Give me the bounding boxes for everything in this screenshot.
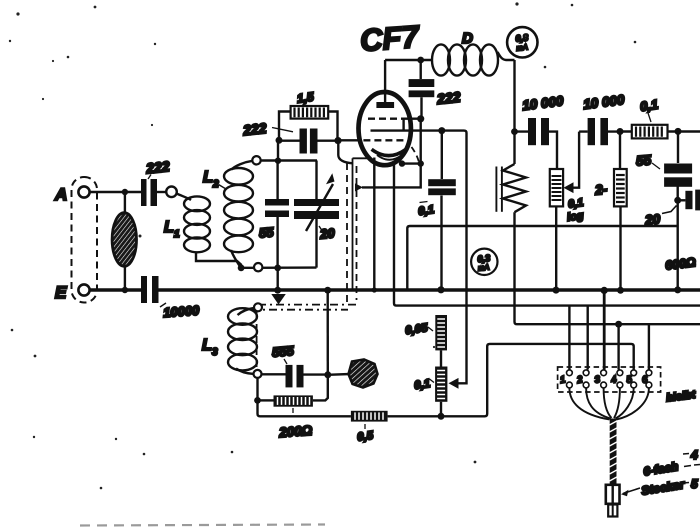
capacitor 222 (grid) (241, 120, 338, 154)
wire coil D to supply drop (498, 52, 515, 60)
svg-text:55: 55 (635, 152, 652, 168)
node supply / 10000 tee (511, 128, 518, 135)
wire g2 feed (442, 131, 467, 384)
resistor 200 ohm (258, 375, 328, 440)
node pin3 at bus (601, 287, 608, 294)
wire E line / main bus (90, 288, 700, 291)
svg-text:L: L (202, 337, 212, 354)
wire riser tank top to grid node (277, 140, 279, 160)
svg-text:55: 55 (258, 224, 274, 240)
node tank bottom (274, 265, 281, 272)
bottom edge smudge (80, 525, 325, 526)
node cathode at bus (372, 287, 377, 292)
connector pins (559, 370, 652, 388)
node L1/L2 bottom (238, 265, 245, 272)
node on E line (122, 287, 128, 293)
node riser at bus (324, 287, 331, 294)
coil L2 (203, 161, 253, 268)
node at bottom bus (438, 413, 445, 420)
wire tank top (261, 159, 317, 161)
terminal E (55, 283, 90, 302)
terminal circle L2 bottom (254, 263, 262, 271)
svg-text:mA: mA (478, 262, 490, 272)
label 6-fach Stecker with arrow (621, 459, 700, 498)
svg-text:0,5: 0,5 (357, 430, 375, 444)
tube g2 line (solid) (371, 129, 442, 131)
svg-text:E: E (55, 283, 67, 302)
tube grid tie (404, 119, 419, 131)
wire choke down to heater bus corner (515, 212, 700, 324)
wire pin3 riser (603, 290, 606, 370)
ground triangle (shield to bus) (271, 294, 286, 305)
arrester (hatched oval between A and E) (112, 192, 136, 290)
capacitor 0,1 (screen bypass) (418, 131, 456, 290)
terminal circle L1 top (166, 187, 177, 198)
tube cathode (372, 149, 406, 155)
label 600 ohm (664, 255, 696, 273)
dashed terminal enclosure (72, 177, 98, 303)
cable (hatched) (610, 419, 617, 486)
wire L3 bottom to 555 (262, 373, 286, 375)
capacitor 555 (271, 343, 327, 387)
wire screen drop to cathode and shield box edge (362, 119, 421, 188)
svg-text:10000: 10000 (163, 303, 201, 321)
terminal circle L3 bottom (254, 370, 262, 378)
node cap 20 junction (674, 197, 681, 204)
node screen cap (417, 115, 424, 122)
shield dash vertical (L3 can) (256, 312, 258, 370)
wire bottom bus right of 0,5 (388, 344, 634, 416)
node 555 right (324, 371, 331, 378)
variable capacitor 20 (tank) (294, 161, 339, 268)
svg-text:mA: mA (516, 42, 528, 52)
svg-text:0,1: 0,1 (414, 378, 432, 392)
wire between 0,05 and 0,1 (440, 350, 442, 366)
wire grid to tube (338, 139, 359, 141)
shield box arrow (355, 183, 363, 191)
node tank top (junction to grid node riser) (275, 158, 281, 164)
svg-text:222: 222 (144, 158, 170, 176)
capacitor 55 (right) (635, 131, 692, 290)
node resistor 2 at bus (617, 287, 624, 294)
svg-text:0,1: 0,1 (567, 197, 584, 211)
svg-text:2: 2 (212, 179, 219, 190)
capacitor 10000 (E line) (141, 276, 200, 320)
wire pin1 riser (568, 306, 570, 370)
wire heater lead / heater bus (394, 162, 700, 306)
node on A line (122, 189, 128, 195)
wire tank bottom (241, 266, 317, 269)
tube anode plate (376, 60, 394, 108)
node g2 cap tie (438, 127, 445, 134)
resistor 0,1 (top right) (620, 97, 700, 139)
tube control grid (dashed) (363, 139, 404, 141)
node right cap at bus (674, 286, 681, 293)
shield dash vertical pair (left of tube) (346, 163, 348, 302)
wire anode supply drop (513, 60, 515, 164)
node grid (334, 137, 341, 144)
wire grid node to shield lead (338, 141, 352, 164)
shield box top edge (353, 158, 368, 163)
wire anode top (385, 59, 433, 61)
resistor 1,5 (279, 90, 338, 141)
node anode cap tie (417, 57, 424, 64)
meter 0,3 mA (471, 249, 497, 275)
node bus at tank riser (274, 287, 281, 294)
connector block (dashed) (558, 367, 661, 392)
tube CF7 envelope U1 (359, 19, 422, 165)
capacitor 55 (tank) (258, 161, 289, 268)
svg-text:1: 1 (174, 229, 180, 240)
svg-text:5: 5 (691, 477, 698, 491)
choke with core (zigzag) (496, 164, 526, 212)
tube heater (377, 155, 402, 160)
wire pin2 riser (587, 306, 589, 370)
wire cathode tie (402, 162, 421, 164)
node 200ohm left (254, 397, 261, 404)
label fragment 5 (683, 477, 698, 491)
plug 6-fach Stecker (606, 485, 620, 517)
svg-text:2-: 2- (593, 182, 608, 198)
wire pin6 riser (648, 324, 650, 369)
svg-text:555: 555 (271, 343, 295, 360)
shield dashes at tube lower right (412, 147, 420, 165)
svg-text:222: 222 (241, 120, 267, 138)
resistor 0,5 (351, 411, 388, 444)
capacitor 10000 (first) (515, 93, 565, 169)
svg-text:log: log (566, 210, 584, 224)
svg-text:4: 4 (690, 448, 698, 462)
arrow into 0,1 resistor (449, 378, 459, 389)
svg-text:CF7: CF7 (359, 19, 422, 58)
capacitor 20 (right trimmer) (644, 190, 700, 228)
detector blob (hatched) (328, 360, 378, 388)
svg-text:L: L (203, 169, 213, 186)
wire A line (90, 191, 141, 193)
svg-text:1,5: 1,5 (296, 90, 315, 106)
wire cathode lead to bus (373, 158, 375, 291)
node 0,1 right (675, 128, 682, 135)
meter 0,8 mA (507, 27, 537, 57)
node pot at bus (553, 287, 560, 294)
wire shield ground drop (352, 163, 354, 289)
terminal circle L3 top (254, 303, 262, 311)
resistor 0,05 (405, 315, 447, 350)
terminal A (54, 185, 90, 204)
resistor 0,1 (lower) (414, 367, 448, 402)
svg-text:L: L (164, 219, 174, 236)
shield dash-dot bottom pair (258, 304, 357, 306)
node pin4 at heater line (615, 321, 622, 328)
svg-text:222: 222 (435, 89, 461, 107)
svg-text:200Ω: 200Ω (278, 423, 313, 440)
node grid RC left (X1) (276, 137, 283, 144)
svg-text:A: A (54, 185, 67, 204)
node cathode tie right (418, 160, 424, 166)
capacitor 222 (antenna) (141, 158, 170, 206)
tube screen grid (dashed) (368, 117, 404, 119)
node bypass at bus (437, 286, 444, 293)
svg-text:20: 20 (319, 225, 336, 241)
coil L1 (164, 194, 241, 269)
wire riser tank bottom to bus (277, 268, 279, 290)
wire 0,1 lower to bottom bus (440, 402, 442, 417)
capacitor 10000 (second) (579, 92, 626, 145)
coil L3 (202, 308, 257, 374)
coil D (432, 30, 498, 76)
resistor 2 (593, 132, 626, 291)
node cathode tie left (399, 160, 405, 166)
capacitor 222 (anode bypass) (409, 60, 462, 119)
wire heater line (y=226) (407, 226, 677, 290)
svg-text:3: 3 (212, 347, 218, 358)
svg-text:0,1: 0,1 (639, 97, 659, 114)
node after second 10000 (617, 128, 624, 135)
svg-text:0,1: 0,1 (418, 204, 436, 218)
wire riser bus to 555 node (327, 290, 329, 375)
potentiometer 0,1 log (550, 132, 585, 290)
cable fan wires (569, 388, 649, 420)
terminal circle L2 top (252, 156, 260, 164)
wire L3 bottom drop (258, 378, 351, 416)
wire pin4 riser (617, 324, 619, 369)
label fragment 4 (683, 448, 698, 462)
